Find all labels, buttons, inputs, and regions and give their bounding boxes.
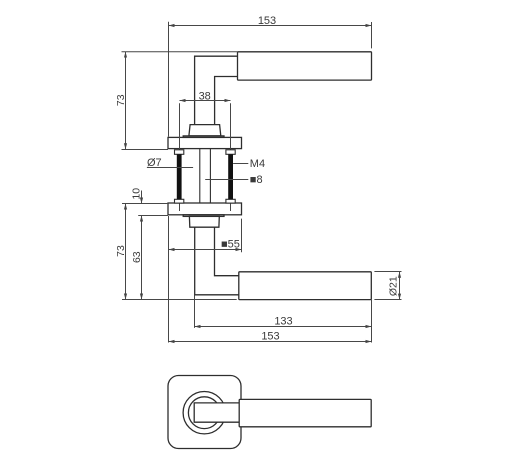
dim line 73 bottom: [125, 204, 127, 300]
front view outer ring: [183, 392, 225, 434]
front view grip: [239, 399, 371, 426]
front view square rose: [168, 376, 371, 449]
svg-text:Ø7: Ø7: [147, 157, 162, 169]
ext 38 right screw axis: [230, 103, 232, 211]
dim line 73 top: [125, 52, 127, 150]
front view inner ring: [188, 397, 220, 429]
svg-text:■8: ■8: [250, 174, 263, 186]
screw right M4: [226, 150, 235, 203]
dim arrow 10 upper: [141, 197, 143, 204]
ext dia21 top: [374, 271, 401, 273]
dim line 153 bottom: [169, 341, 372, 343]
lever arm bottom view: [195, 227, 239, 295]
ext square55 right: [241, 219, 243, 253]
spindle square 8mm section: [200, 149, 211, 203]
svg-text:133: 133: [274, 316, 292, 328]
dim line square55: [169, 249, 242, 251]
ext 73 top lower: [122, 149, 169, 151]
svg-text:Ø21: Ø21: [387, 276, 399, 296]
grip bottom view: [239, 272, 371, 300]
screw left M4: [175, 150, 184, 203]
ext 133 left: [194, 296, 196, 328]
svg-text:38: 38: [199, 91, 211, 103]
collar section: [189, 216, 219, 227]
leader dia7: [147, 167, 193, 169]
ext 153 top right: [371, 22, 373, 48]
ext 153 bottom left: [168, 216, 170, 343]
thin extension and dimension lines: [122, 22, 402, 343]
dim line dia21: [399, 272, 401, 300]
svg-text:153: 153: [261, 331, 279, 343]
ext rose bottom ref left: [138, 215, 168, 217]
lever arm top view: [195, 56, 238, 124]
svg-text:■55: ■55: [221, 238, 240, 250]
step band top view: [183, 136, 224, 138]
dim line 38: [180, 100, 231, 102]
ext 38 left screw axis: [179, 103, 181, 211]
svg-text:153: 153: [258, 15, 276, 27]
svg-text:10: 10: [131, 188, 143, 200]
svg-text:73: 73: [115, 94, 127, 106]
dim line 153 top: [169, 25, 372, 27]
leader square8: [205, 179, 248, 181]
step band section: [183, 215, 224, 217]
ext 10 upper tail: [141, 191, 143, 204]
front view neck: [194, 403, 239, 422]
leader M4: [233, 163, 248, 165]
rose plate top view: [168, 137, 242, 148]
ext 153 top left: [168, 22, 170, 137]
dimension texts: [115, 15, 399, 343]
dim line 133: [195, 326, 372, 328]
ext 133/153 right: [371, 300, 373, 343]
ext dia21 bottom: [374, 299, 401, 301]
ext rose top ref left: [122, 203, 168, 205]
svg-text:M4: M4: [250, 158, 265, 170]
grip top view: [238, 52, 372, 80]
ext handle bottom ref: [122, 299, 237, 301]
ext 73 top upper: [122, 51, 238, 53]
collar top view: [189, 125, 221, 136]
rose plate section (bottom rose): [168, 203, 242, 215]
dim line 63: [141, 216, 143, 300]
svg-text:73: 73: [115, 245, 127, 257]
svg-text:63: 63: [131, 251, 143, 263]
